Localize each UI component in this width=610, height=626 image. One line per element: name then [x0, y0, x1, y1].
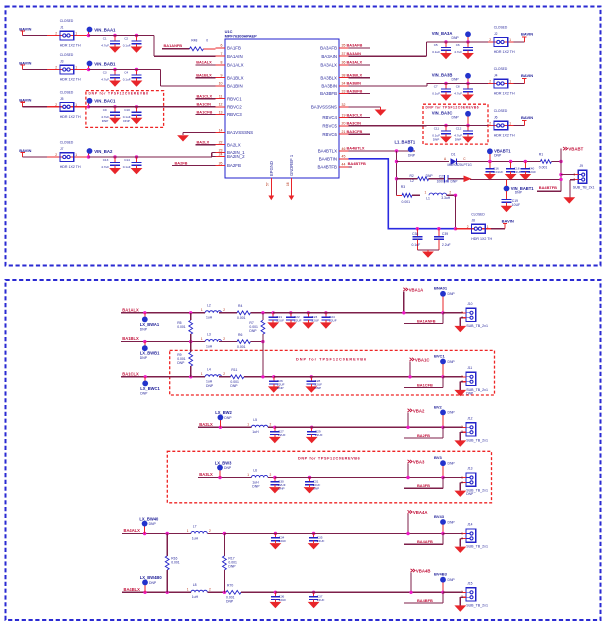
wire — [446, 41, 468, 43]
svg-text:2: 2 — [467, 225, 469, 229]
wire to R1 — [490, 161, 540, 163]
svg-text:C39: C39 — [442, 232, 448, 236]
svg-text:0.001: 0.001 — [237, 316, 246, 320]
capacitor C13 4.7uF — [113, 155, 116, 158]
pin 24 BA2IN_2 — [216, 156, 226, 158]
svg-text:L7: L7 — [193, 524, 197, 528]
svg-text:DNP: DNP — [455, 138, 462, 142]
junction — [454, 194, 457, 197]
pin 9 BA1BLX — [216, 77, 226, 79]
capacitor C18 22UF — [509, 160, 512, 163]
svg-text:32: 32 — [342, 103, 346, 107]
svg-text:0.1uF: 0.1uF — [123, 78, 131, 82]
wire pin 2 — [460, 481, 463, 483]
wire vertical battery node — [396, 151, 398, 195]
svg-text:21: 21 — [342, 130, 346, 134]
svg-text:DNP for TPSF12C0EREVB6: DNP for TPSF12C0EREVB6 — [426, 105, 480, 109]
svg-text:BA3AIN: BA3AIN — [347, 51, 362, 56]
svg-text:RBVC2: RBVC2 — [227, 104, 242, 109]
svg-text:VBA1A: VBA1A — [409, 287, 424, 292]
svg-text:LX_BWC1: LX_BWC1 — [140, 386, 160, 391]
pin 21 RBVC6 — [339, 133, 349, 135]
svg-text:0.01UF: 0.01UF — [493, 170, 503, 174]
svg-text:DNP: DNP — [313, 487, 320, 491]
svg-text:45: 45 — [342, 155, 346, 159]
svg-text:CLOSED: CLOSED — [471, 212, 485, 216]
wire pin 2 — [460, 431, 463, 433]
svg-text:8: 8 — [221, 61, 223, 65]
capacitor C26 22UF DNP — [272, 375, 275, 378]
wire pin 2 down — [459, 318, 461, 326]
capacitor C16 0.01UF — [488, 160, 491, 163]
wire J1 pin1 — [80, 35, 115, 37]
wire — [408, 477, 443, 479]
wire — [427, 83, 447, 85]
wire J5 pin1 — [80, 106, 115, 108]
wire pin 14 to ground — [183, 132, 216, 134]
junction — [409, 591, 412, 594]
junction — [406, 532, 409, 535]
svg-text:DNP: DNP — [515, 191, 523, 195]
svg-text:C4: C4 — [124, 71, 128, 75]
svg-text:DNP for TPSF12C0EREVB6: DNP for TPSF12C0EREVB6 — [298, 456, 360, 460]
wire cap commons — [417, 249, 439, 251]
wire feedback — [404, 602, 443, 604]
wire BA1BLX — [121, 341, 205, 343]
wire to J15 — [443, 591, 463, 593]
wire feedback — [404, 437, 443, 439]
capacitor C5 0.1uF — [444, 40, 447, 43]
wire J6 pin1 — [514, 125, 525, 127]
svg-text:SUB_TB_2x1: SUB_TB_2x1 — [466, 603, 488, 607]
svg-text:J4: J4 — [494, 74, 498, 78]
net label VIN_BAA1 — [87, 27, 93, 33]
svg-text:BA4AFB: BA4AFB — [417, 539, 433, 544]
pin 32 BA3VSSSNS — [339, 106, 349, 108]
ground pin 14 — [177, 135, 189, 141]
junction — [406, 426, 409, 429]
wire stub pin 21 — [349, 133, 371, 135]
pin 13 RBVC3 — [216, 114, 226, 116]
wire feedback drop — [442, 478, 444, 489]
pin 37 BA3AIN — [339, 55, 349, 57]
svg-text:J3: J3 — [60, 60, 64, 64]
net label LX_BW40 — [143, 532, 146, 535]
capacitor C27 22UF — [273, 426, 276, 429]
junction — [437, 227, 440, 230]
svg-text:J15: J15 — [467, 582, 472, 586]
resistor R70 0.001 DNP — [226, 590, 241, 594]
svg-text:VIN_BA3C: VIN_BA3C — [432, 111, 453, 116]
wire pin 2 down — [459, 597, 461, 605]
svg-text:0.1uF: 0.1uF — [432, 92, 440, 96]
wire BA4BLX — [122, 591, 191, 593]
wire BA2LX — [198, 426, 252, 428]
svg-text:1uH: 1uH — [206, 344, 213, 348]
pin 7 BA1AIN — [216, 55, 226, 57]
wire — [219, 376, 230, 378]
svg-text:BA4BTFB: BA4BTFB — [317, 165, 337, 170]
wire pin 46 BA4BTLX — [349, 150, 416, 152]
svg-text:BA4BTIN: BA4BTIN — [319, 156, 337, 161]
svg-text:C2: C2 — [124, 37, 128, 41]
svg-text:SUB_TB_2x1: SUB_TB_2x1 — [466, 545, 488, 549]
wire pin 32 to ground — [349, 106, 381, 108]
svg-text:RBVC5: RBVC5 — [322, 123, 337, 128]
net label VIN_BAC1 — [87, 98, 93, 104]
svg-text:DNP for TPSF12C0EREVB6: DNP for TPSF12C0EREVB6 — [89, 92, 149, 96]
junction — [408, 375, 411, 378]
junction — [261, 375, 264, 378]
wire BA4ALX — [122, 533, 191, 535]
svg-text:4.7uF: 4.7uF — [101, 165, 109, 169]
wire to J4 — [468, 83, 488, 85]
junction — [223, 591, 226, 594]
svg-text:22UF: 22UF — [315, 433, 323, 437]
pin 10 BA1BIN — [216, 85, 226, 87]
svg-text:DNP: DNP — [224, 416, 232, 420]
svg-text:BA3CFB: BA3CFB — [347, 129, 363, 134]
wire bracket — [211, 153, 213, 157]
svg-text:1uH: 1uH — [252, 430, 259, 434]
svg-text:22UF: 22UF — [312, 318, 320, 322]
junction — [416, 227, 419, 230]
svg-text:C38: C38 — [412, 232, 418, 236]
junction — [223, 532, 226, 535]
svg-text:C21: C21 — [439, 174, 445, 178]
pin 11 RBVC1 — [216, 98, 226, 100]
svg-text:DNP: DNP — [494, 154, 502, 158]
ground J10 — [454, 326, 466, 332]
svg-text:12: 12 — [219, 103, 223, 107]
diode D1 MBR0520LPT1G — [451, 158, 457, 164]
svg-text:DNP: DNP — [230, 384, 238, 388]
wire stub pin 19 — [349, 117, 371, 119]
capacitor C3 4.7uF — [113, 68, 116, 71]
svg-text:DNP: DNP — [452, 77, 460, 81]
net label VIN_BAB1 — [87, 61, 93, 67]
svg-text:J8: J8 — [472, 219, 476, 223]
svg-text:BA1BLX: BA1BLX — [227, 75, 244, 80]
wire pin 2 down — [459, 482, 461, 490]
wire to diode D1 — [397, 161, 450, 163]
svg-text:HDR 1X2 TH: HDR 1X2 TH — [494, 50, 515, 54]
svg-text:RBVC6: RBVC6 — [322, 132, 337, 137]
svg-text:BA3CIN: BA3CIN — [347, 120, 362, 125]
wire — [448, 178, 464, 180]
svg-text:DNP: DNP — [448, 520, 456, 524]
svg-text:VBABT: VBABT — [568, 147, 583, 152]
svg-text:22: 22 — [219, 141, 223, 145]
wire stub pin 22 — [196, 144, 216, 146]
wire pin 2 down — [459, 382, 461, 390]
wire — [408, 312, 443, 314]
svg-text:22UF: 22UF — [329, 318, 337, 322]
svg-text:DNP: DNP — [448, 292, 456, 296]
svg-text:SUB_TB_2x1: SUB_TB_2x1 — [573, 186, 595, 190]
capacitor C21 22UF — [272, 311, 275, 314]
svg-text:BA2LX: BA2LX — [227, 142, 241, 147]
capacitor C9 4.7uF DNP — [113, 105, 116, 108]
svg-text:2: 2 — [55, 32, 57, 36]
wire J3 pin1 — [80, 69, 115, 71]
svg-text:VBA2: VBA2 — [413, 408, 425, 413]
svg-text:BA1ALX: BA1ALX — [227, 63, 244, 68]
junction — [454, 227, 457, 230]
svg-text:J13: J13 — [467, 467, 472, 471]
svg-text:BA2IN_2: BA2IN_2 — [227, 154, 245, 159]
power port VBABT — [563, 147, 568, 150]
wire — [89, 69, 116, 71]
pin 23 BA2IN_1 — [216, 152, 226, 154]
svg-text:BA3LX: BA3LX — [199, 472, 213, 477]
svg-text:2: 2 — [209, 588, 211, 592]
svg-text:L2: L2 — [207, 304, 211, 308]
svg-text:BAVIN: BAVIN — [521, 32, 533, 37]
capacitor C1 4.7uF — [113, 34, 116, 37]
power port VBA4A — [408, 510, 413, 513]
svg-text:R70: R70 — [227, 584, 233, 588]
wire feedback — [404, 387, 443, 389]
wire elbow — [426, 42, 428, 56]
svg-text:BA1VSSSNS: BA1VSSSNS — [227, 130, 253, 135]
svg-text:DNP: DNP — [149, 522, 157, 526]
svg-text:1: 1 — [75, 153, 77, 157]
svg-text:2: 2 — [55, 103, 57, 107]
capacitor C31 22UF DNP — [308, 476, 311, 479]
junction — [189, 340, 192, 343]
wire pin 20 to VIN_BA3C — [349, 125, 427, 127]
svg-text:22UF: 22UF — [278, 433, 286, 437]
svg-text:44: 44 — [342, 163, 346, 167]
svg-text:VBA1C: VBA1C — [415, 357, 430, 362]
svg-text:BV43: BV43 — [434, 514, 445, 519]
wire down to J9 — [560, 162, 562, 192]
power port VBA4B — [411, 569, 416, 572]
svg-text:HDR 1X2 TH: HDR 1X2 TH — [60, 165, 81, 169]
svg-text:14: 14 — [219, 128, 223, 132]
svg-text:R11: R11 — [231, 368, 237, 372]
capacitor C34 22UF — [274, 532, 277, 535]
wire J8 to BAVIN — [491, 228, 505, 230]
wire rail C — [274, 376, 408, 378]
svg-text:DNP: DNP — [452, 36, 460, 40]
svg-text:11: 11 — [219, 95, 223, 99]
svg-text:6: 6 — [221, 44, 223, 48]
svg-text:10: 10 — [219, 82, 223, 86]
pin 44 BA4BTFB — [339, 166, 349, 168]
junction — [166, 532, 169, 535]
wire up to VBABT port — [560, 149, 562, 162]
svg-text:36: 36 — [342, 61, 346, 65]
svg-text:L8: L8 — [193, 583, 197, 587]
wire feedback — [404, 487, 443, 489]
svg-text:1: 1 — [487, 225, 489, 229]
svg-text:BAVIN: BAVIN — [502, 218, 514, 223]
junction — [441, 426, 444, 429]
svg-text:BV4B3: BV4B3 — [434, 572, 448, 577]
capacitor C2 0.1uF — [135, 34, 138, 37]
wire pin 2 — [460, 317, 463, 319]
capacitor C22 22UF — [289, 311, 292, 314]
wire to pin 7 — [154, 55, 216, 57]
capacitor C12 4.7uF DNP — [466, 124, 469, 127]
wire BAVIN to J1 — [23, 35, 54, 37]
wire J2 pin1 — [514, 41, 525, 43]
svg-text:BA3VSSSNS: BA3VSSSNS — [311, 105, 337, 110]
power port VBA3 — [408, 460, 413, 463]
junction — [488, 160, 491, 163]
resistor R1 0.001 — [540, 160, 551, 164]
svg-text:1: 1 — [201, 308, 203, 312]
svg-text:C11: C11 — [434, 127, 440, 131]
ground EPGND — [268, 196, 274, 201]
svg-text:BA3AFB: BA3AFB — [347, 43, 363, 48]
junction — [559, 173, 562, 176]
pin 6 BA1FB — [216, 47, 226, 49]
top sheet border — [6, 7, 601, 266]
svg-text:CLOSED: CLOSED — [60, 53, 74, 57]
svg-text:DNP: DNP — [140, 356, 148, 360]
svg-text:BA4BTFB: BA4BTFB — [348, 161, 366, 166]
wire pin 2 — [460, 537, 463, 539]
svg-text:LX_BWB1: LX_BWB1 — [140, 351, 160, 356]
svg-text:C12: C12 — [456, 127, 462, 131]
capacitor C23 22UF — [307, 311, 310, 314]
svg-text:CLOSED: CLOSED — [60, 141, 74, 145]
svg-text:BA4BFB: BA4BFB — [417, 598, 433, 603]
svg-text:HDR 1X2 TH: HDR 1X2 TH — [60, 115, 81, 119]
junction — [261, 311, 264, 314]
wire — [115, 156, 137, 158]
wire to J2 — [468, 41, 488, 43]
capacitor C29 22UF — [310, 426, 313, 429]
wire elbow down — [153, 36, 155, 57]
wire to J12 — [443, 426, 463, 428]
svg-text:RBVC4: RBVC4 — [322, 115, 337, 120]
ground J15 — [454, 605, 466, 611]
capacitor C14 0.1uF — [135, 155, 138, 158]
pin 19 RBVC4 — [339, 117, 349, 119]
svg-text:LX_BW4B0: LX_BW4B0 — [140, 575, 163, 580]
svg-text:0.001: 0.001 — [402, 200, 411, 204]
wire — [219, 312, 237, 314]
svg-text:2: 2 — [449, 191, 451, 195]
resistor R5 0.001 — [190, 313, 192, 320]
svg-text:C10: C10 — [124, 108, 130, 112]
svg-text:DNP: DNP — [140, 391, 148, 395]
wire J9 pin 2 — [570, 179, 575, 181]
junction — [441, 591, 444, 594]
DNP box top-right — [423, 104, 488, 144]
svg-text:BA3FB: BA3FB — [417, 483, 430, 488]
wire BAVIN to J5 — [23, 106, 54, 108]
wire diode to VBABT1 — [457, 161, 491, 163]
svg-text:BA1ANFB: BA1ANFB — [417, 318, 436, 323]
wire feedback drop — [442, 427, 444, 438]
capacitor C8 4.7uF — [466, 82, 469, 85]
wire stub pin 13 — [196, 114, 216, 116]
svg-text:1uH: 1uH — [206, 316, 213, 320]
svg-text:19: 19 — [342, 113, 346, 117]
wire port to rail — [407, 514, 409, 533]
net label VBABT1 — [487, 148, 493, 154]
svg-text:C13: C13 — [103, 158, 109, 162]
svg-text:BA3BIN: BA3BIN — [321, 84, 337, 89]
capacitor C35 22UF — [312, 532, 315, 535]
svg-text:1: 1 — [75, 32, 77, 36]
svg-text:LX_BWA1: LX_BWA1 — [140, 322, 160, 327]
wire stub pin 38 — [349, 77, 371, 79]
svg-text:J11: J11 — [467, 366, 472, 370]
svg-text:1: 1 — [509, 80, 511, 84]
svg-text:22UF: 22UF — [529, 170, 537, 174]
svg-text:DNP: DNP — [448, 360, 456, 364]
junction — [189, 311, 192, 314]
wire VIN_BAA1 to elbow — [137, 35, 155, 37]
resistor R11 0.001 DNP — [230, 375, 243, 379]
svg-text:BA4BTLX: BA4BTLX — [347, 146, 365, 151]
resistor R4 0.001 — [237, 311, 250, 315]
svg-text:33: 33 — [342, 89, 346, 93]
wire BA4BTFB feedback — [537, 190, 561, 192]
svg-text:1000pF: 1000pF — [437, 179, 448, 183]
svg-text:LX_BW2: LX_BW2 — [215, 410, 232, 415]
junction — [166, 591, 169, 594]
wire — [244, 376, 274, 378]
pin 26 BA2FB — [216, 165, 226, 167]
svg-text:2: 2 — [270, 423, 272, 427]
svg-text:HDR 1X2 TH: HDR 1X2 TH — [494, 92, 515, 96]
capacitor C19 10UF — [506, 191, 508, 200]
svg-text:0: 0 — [206, 39, 208, 43]
svg-text:DNP: DNP — [206, 384, 214, 388]
wire BA3LX — [198, 477, 252, 479]
svg-text:2: 2 — [209, 529, 211, 533]
svg-text:DNP: DNP — [466, 492, 474, 496]
wire to pin 23 — [212, 152, 216, 154]
svg-text:LX_BW40: LX_BW40 — [139, 516, 159, 521]
wire stub pin 8 — [196, 64, 216, 66]
wire VIN_BAB1 to elbow — [137, 69, 161, 71]
junction — [559, 160, 562, 163]
pin 14 BA1VSSSNS — [216, 132, 226, 134]
svg-text:BA3BFB: BA3BFB — [320, 91, 337, 96]
wire stub pin 26 — [172, 165, 216, 167]
wire stub pin 11 — [196, 98, 216, 100]
junction — [441, 476, 444, 479]
svg-text:2: 2 — [489, 80, 491, 84]
wire — [89, 156, 116, 158]
pin 20 RBVC5 — [339, 125, 349, 127]
wire stub pin 44 — [349, 166, 353, 168]
svg-text:22UF: 22UF — [279, 539, 287, 543]
wire row B to row C — [262, 342, 264, 377]
wire pin 34 to VIN_BA3B — [349, 85, 428, 87]
wire port to rail — [407, 464, 409, 478]
power port VBA2 — [408, 409, 413, 412]
svg-text:DNP: DNP — [226, 600, 234, 604]
svg-text:C1: C1 — [103, 37, 107, 41]
svg-text:DNP: DNP — [278, 487, 285, 491]
svg-text:0.1uF: 0.1uF — [412, 243, 421, 247]
wire to J13 — [443, 477, 463, 479]
svg-text:GNDREF 1: GNDREF 1 — [289, 154, 294, 176]
junction — [441, 375, 444, 378]
svg-text:BV2: BV2 — [434, 404, 443, 409]
wire feedback drop — [442, 592, 444, 603]
wire — [89, 35, 116, 37]
